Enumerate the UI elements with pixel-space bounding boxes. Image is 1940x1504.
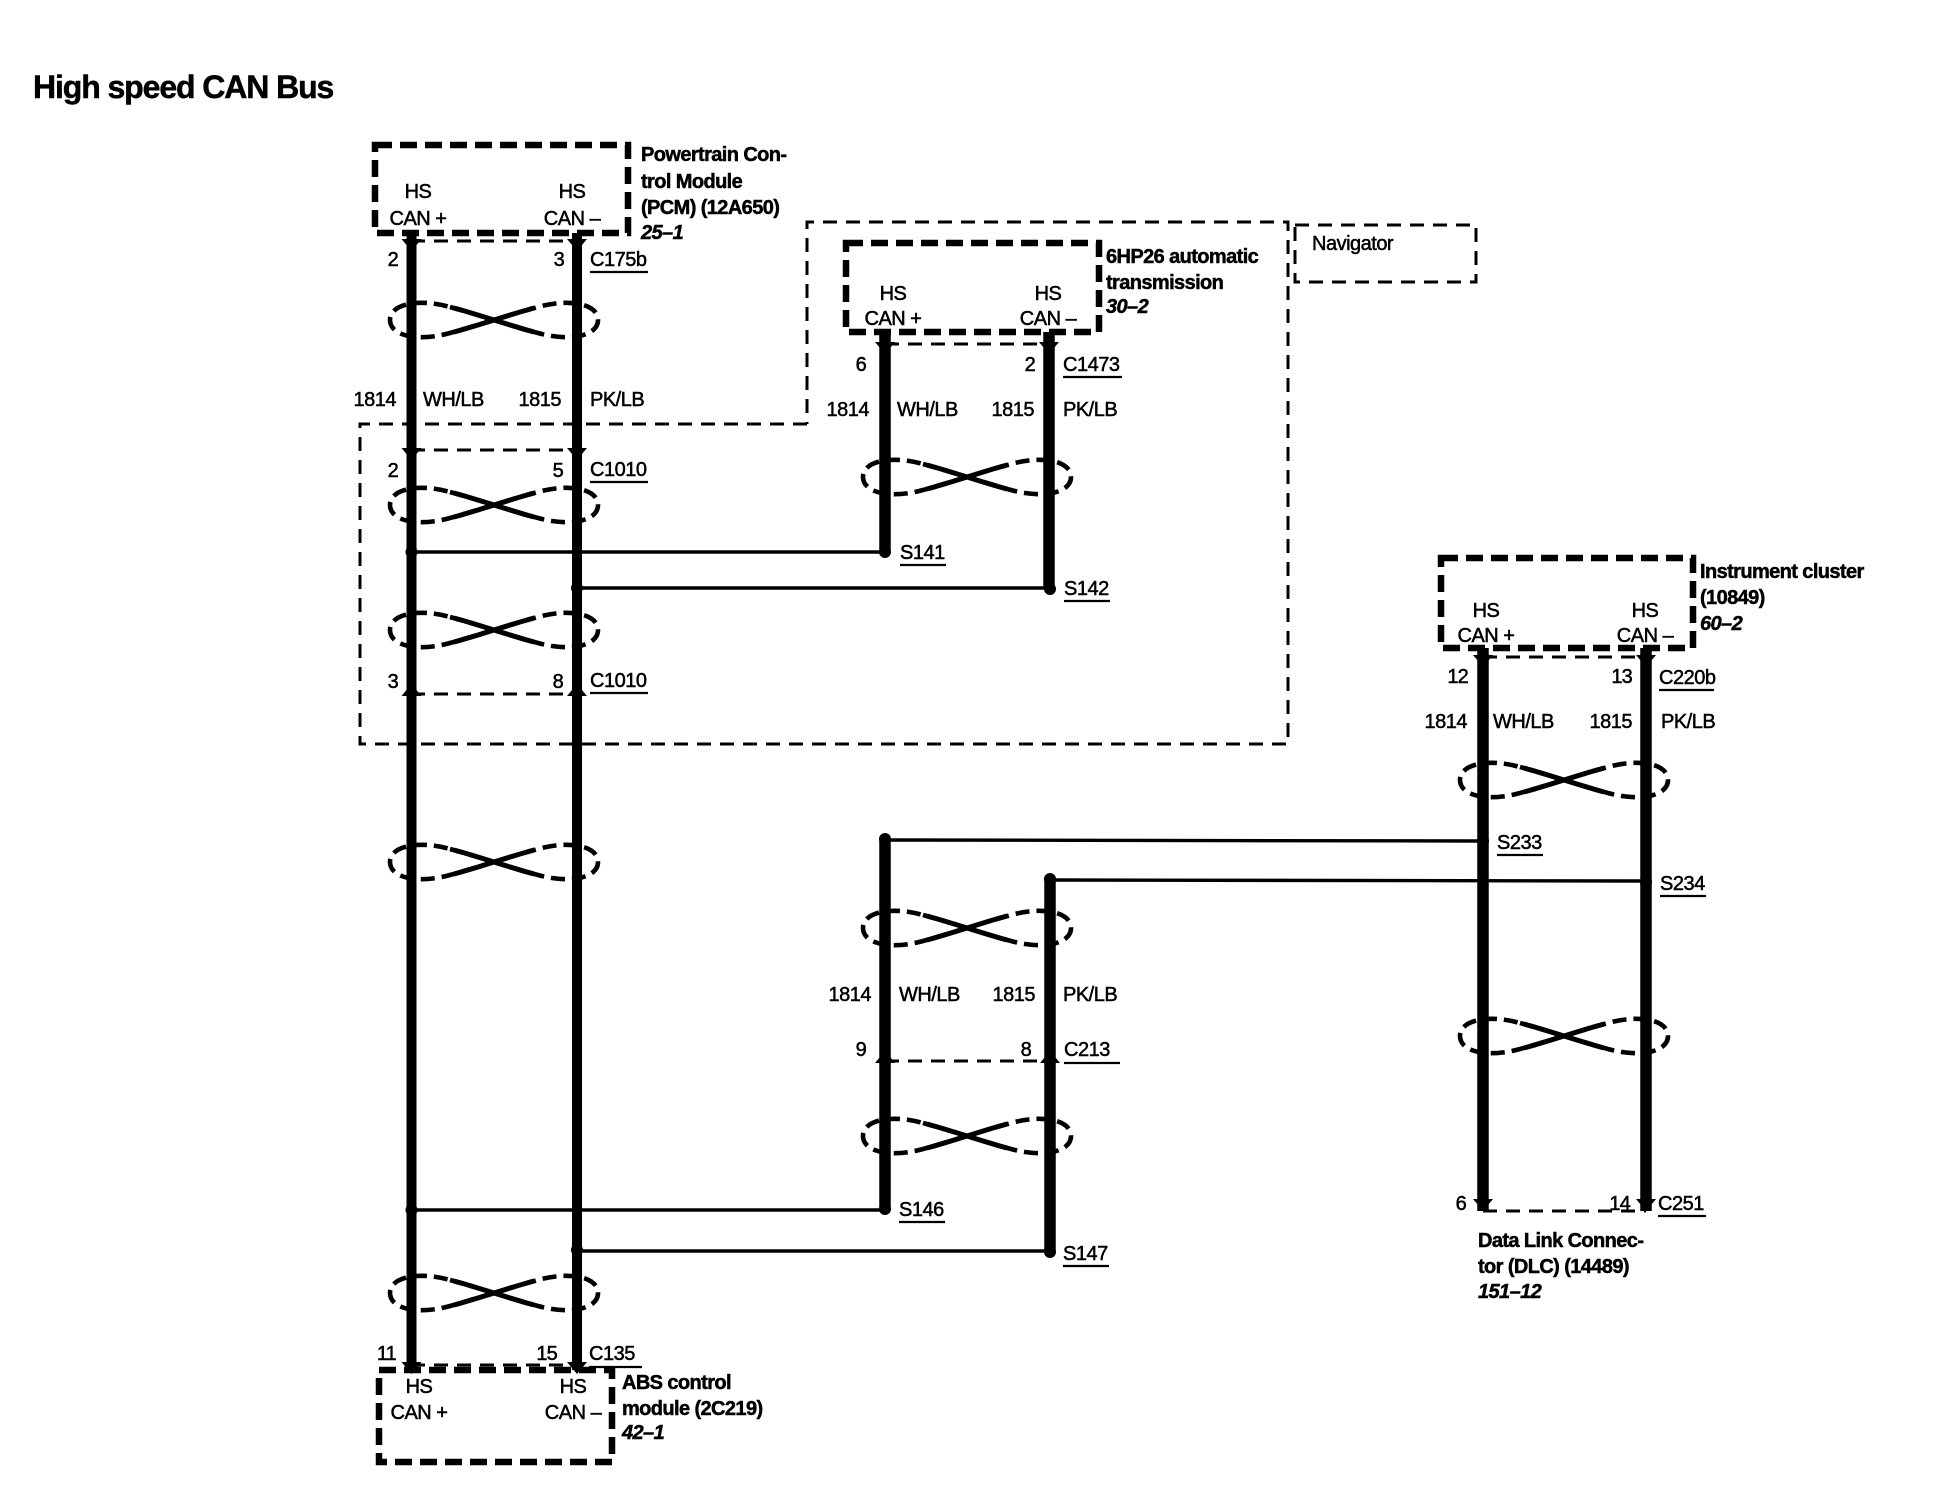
svg-text:CAN –: CAN –: [545, 1402, 603, 1424]
wire 1814 WH/LB (6HP26 HS CAN+): [879, 332, 891, 552]
svg-text:CAN +: CAN +: [865, 308, 922, 330]
svg-text:S234: S234: [1660, 873, 1705, 895]
svg-text:30–2: 30–2: [1106, 296, 1149, 318]
svg-text:C251: C251: [1658, 1193, 1704, 1215]
svg-text:1814: 1814: [354, 389, 397, 411]
svg-text:module (2C219): module (2C219): [622, 1398, 763, 1420]
svg-text:CAN +: CAN +: [391, 1402, 448, 1424]
svg-text:HS: HS: [406, 1376, 433, 1398]
svg-text:1815: 1815: [992, 399, 1035, 421]
svg-text:HS: HS: [405, 181, 432, 203]
svg-text:PK/LB: PK/LB: [1063, 399, 1117, 421]
svg-text:9: 9: [856, 1039, 867, 1061]
twisted pair (bus, mid run): [390, 845, 598, 879]
wire 1814 WH/LB (PCM HS CAN+) left bus: [407, 233, 417, 1370]
svg-text:14: 14: [1609, 1193, 1630, 1215]
svg-text:5: 5: [553, 460, 564, 482]
svg-text:C220b: C220b: [1659, 667, 1716, 689]
svg-text:transmission: transmission: [1106, 272, 1223, 294]
connector C135: [377, 1343, 642, 1374]
wire labels 1814 WH/LB 1815 PK/LB (mid drop): [829, 984, 1118, 1006]
wire 1815 PK/LB (6HP26 HS CAN-): [1043, 332, 1055, 588]
svg-text:15: 15: [536, 1343, 557, 1365]
svg-text:C1010: C1010: [590, 459, 647, 481]
svg-text:60–2: 60–2: [1700, 613, 1743, 635]
svg-text:Instrument cluster: Instrument cluster: [1700, 561, 1864, 583]
splice S234: [1044, 873, 1706, 896]
svg-text:13: 13: [1611, 666, 1632, 688]
splice S142: [571, 578, 1110, 601]
label Instrument cluster (10849) 60-2: [1700, 561, 1864, 635]
twisted pair (mid drop upper): [863, 911, 1071, 945]
module ABS box: [379, 1370, 612, 1462]
wire 1815 PK/LB (mid drop): [1044, 879, 1056, 1252]
svg-text:PK/LB: PK/LB: [1063, 984, 1117, 1006]
svg-text:C135: C135: [589, 1343, 635, 1365]
svg-text:1814: 1814: [1425, 711, 1468, 733]
twisted pair (bus, below C175b): [390, 303, 598, 337]
svg-text:C175b: C175b: [590, 249, 647, 271]
module Instrument cluster box: [1441, 558, 1693, 648]
connector C213: [856, 1039, 1120, 1063]
svg-text:ABS control: ABS control: [622, 1372, 731, 1394]
svg-text:1814: 1814: [829, 984, 872, 1006]
module 6HP26 box: [846, 243, 1099, 332]
svg-text:25–1: 25–1: [640, 222, 684, 244]
connector C220b: [1447, 655, 1715, 690]
svg-text:6: 6: [856, 354, 867, 376]
svg-text:1815: 1815: [993, 984, 1036, 1006]
svg-text:CAN –: CAN –: [1020, 308, 1078, 330]
svg-text:6: 6: [1456, 1193, 1467, 1215]
svg-text:2: 2: [388, 460, 399, 482]
svg-text:HS: HS: [560, 1376, 587, 1398]
svg-text:HS: HS: [1632, 600, 1659, 622]
twisted pair (bus, below C1010): [390, 488, 598, 522]
svg-text:3: 3: [388, 671, 399, 693]
wire 1815 PK/LB (instrument cluster HS CAN-): [1640, 648, 1652, 1211]
svg-text:HS: HS: [1473, 600, 1500, 622]
svg-text:1815: 1815: [1590, 711, 1633, 733]
harness enclosure (thin dashed): [360, 222, 1288, 744]
svg-text:CAN +: CAN +: [1458, 625, 1515, 647]
svg-text:1814: 1814: [827, 399, 870, 421]
svg-text:(PCM) (12A650): (PCM) (12A650): [641, 197, 779, 219]
wire 1814 WH/LB (instrument cluster HS CAN+): [1477, 648, 1489, 1211]
svg-text:CAN +: CAN +: [390, 208, 447, 230]
label 6HP26 automatic transmission 30-2: [1106, 246, 1259, 318]
label Data Link Connector (DLC) (14489) 151-12: [1478, 1230, 1643, 1303]
svg-text:HS: HS: [880, 283, 907, 305]
svg-text:C213: C213: [1064, 1039, 1110, 1061]
svg-text:8: 8: [553, 671, 564, 693]
splice S146: [406, 1199, 946, 1222]
svg-text:CAN –: CAN –: [544, 208, 602, 230]
svg-text:C1473: C1473: [1063, 354, 1120, 376]
module PCM box: [375, 145, 628, 233]
splice S233: [879, 832, 1543, 855]
connector C1010 (pins 2/5): [388, 448, 648, 482]
svg-text:WH/LB: WH/LB: [897, 399, 958, 421]
svg-text:11: 11: [377, 1343, 397, 1365]
svg-text:trol Module: trol Module: [641, 171, 743, 193]
svg-text:42–1: 42–1: [621, 1422, 665, 1444]
twisted pair (instrument cluster lower): [1460, 1019, 1668, 1053]
twisted pair (instrument cluster upper): [1460, 763, 1668, 797]
svg-text:(10849): (10849): [1700, 587, 1765, 609]
svg-text:S147: S147: [1063, 1243, 1108, 1265]
twisted pair (bus, above C1010 3/8): [390, 613, 598, 647]
svg-text:High speed CAN Bus: High speed CAN Bus: [33, 69, 334, 105]
wire labels 1814 WH/LB 1815 PK/LB (instrument cluster): [1425, 711, 1716, 733]
svg-text:151–12: 151–12: [1478, 1281, 1542, 1303]
wire 1814 WH/LB (mid drop): [879, 839, 891, 1210]
svg-text:Powertrain Con-: Powertrain Con-: [641, 144, 786, 166]
svg-text:PK/LB: PK/LB: [1661, 711, 1715, 733]
svg-text:2: 2: [1025, 354, 1036, 376]
svg-text:CAN –: CAN –: [1617, 625, 1675, 647]
splice S141: [406, 542, 947, 565]
svg-text:8: 8: [1021, 1039, 1032, 1061]
twisted pair (bus, above ABS): [390, 1276, 598, 1310]
twisted pair (mid drop lower): [863, 1119, 1071, 1153]
svg-text:12: 12: [1447, 666, 1468, 688]
label Powertrain Control Module (PCM) (12A650) 25-1: [640, 144, 786, 244]
svg-text:1815: 1815: [519, 389, 562, 411]
connector C175b: [388, 239, 648, 272]
svg-text:C1010: C1010: [590, 670, 647, 692]
svg-text:S233: S233: [1497, 832, 1542, 854]
wire labels 1814 WH/LB 1815 PK/LB (6HP26): [827, 399, 1118, 421]
svg-text:HS: HS: [1035, 283, 1062, 305]
svg-text:PK/LB: PK/LB: [590, 389, 644, 411]
svg-text:Navigator: Navigator: [1312, 233, 1394, 255]
svg-text:S142: S142: [1064, 578, 1109, 600]
svg-text:Data Link Connec-: Data Link Connec-: [1478, 1230, 1643, 1252]
svg-text:WH/LB: WH/LB: [1493, 711, 1554, 733]
svg-text:WH/LB: WH/LB: [899, 984, 960, 1006]
svg-text:WH/LB: WH/LB: [423, 389, 484, 411]
svg-text:6HP26 automatic: 6HP26 automatic: [1106, 246, 1259, 268]
module Navigator box: [1295, 225, 1476, 282]
svg-text:S146: S146: [899, 1199, 944, 1221]
svg-text:HS: HS: [559, 181, 586, 203]
twisted pair (6HP26): [863, 460, 1071, 494]
svg-text:3: 3: [554, 249, 565, 271]
connector C1010 (pins 3/8): [388, 670, 648, 696]
svg-text:tor (DLC) (14489): tor (DLC) (14489): [1478, 1256, 1629, 1278]
connector C1473: [856, 342, 1122, 377]
wire 1815 PK/LB (PCM HS CAN-) right bus: [572, 233, 582, 1370]
svg-text:2: 2: [388, 249, 399, 271]
wire labels 1814 WH/LB 1815 PK/LB (bus): [354, 389, 645, 411]
label ABS control module (2C219) 42-1: [621, 1372, 763, 1444]
splice S147: [571, 1243, 1109, 1266]
connector C251 (DLC): [1456, 1193, 1706, 1216]
svg-text:S141: S141: [900, 542, 945, 564]
